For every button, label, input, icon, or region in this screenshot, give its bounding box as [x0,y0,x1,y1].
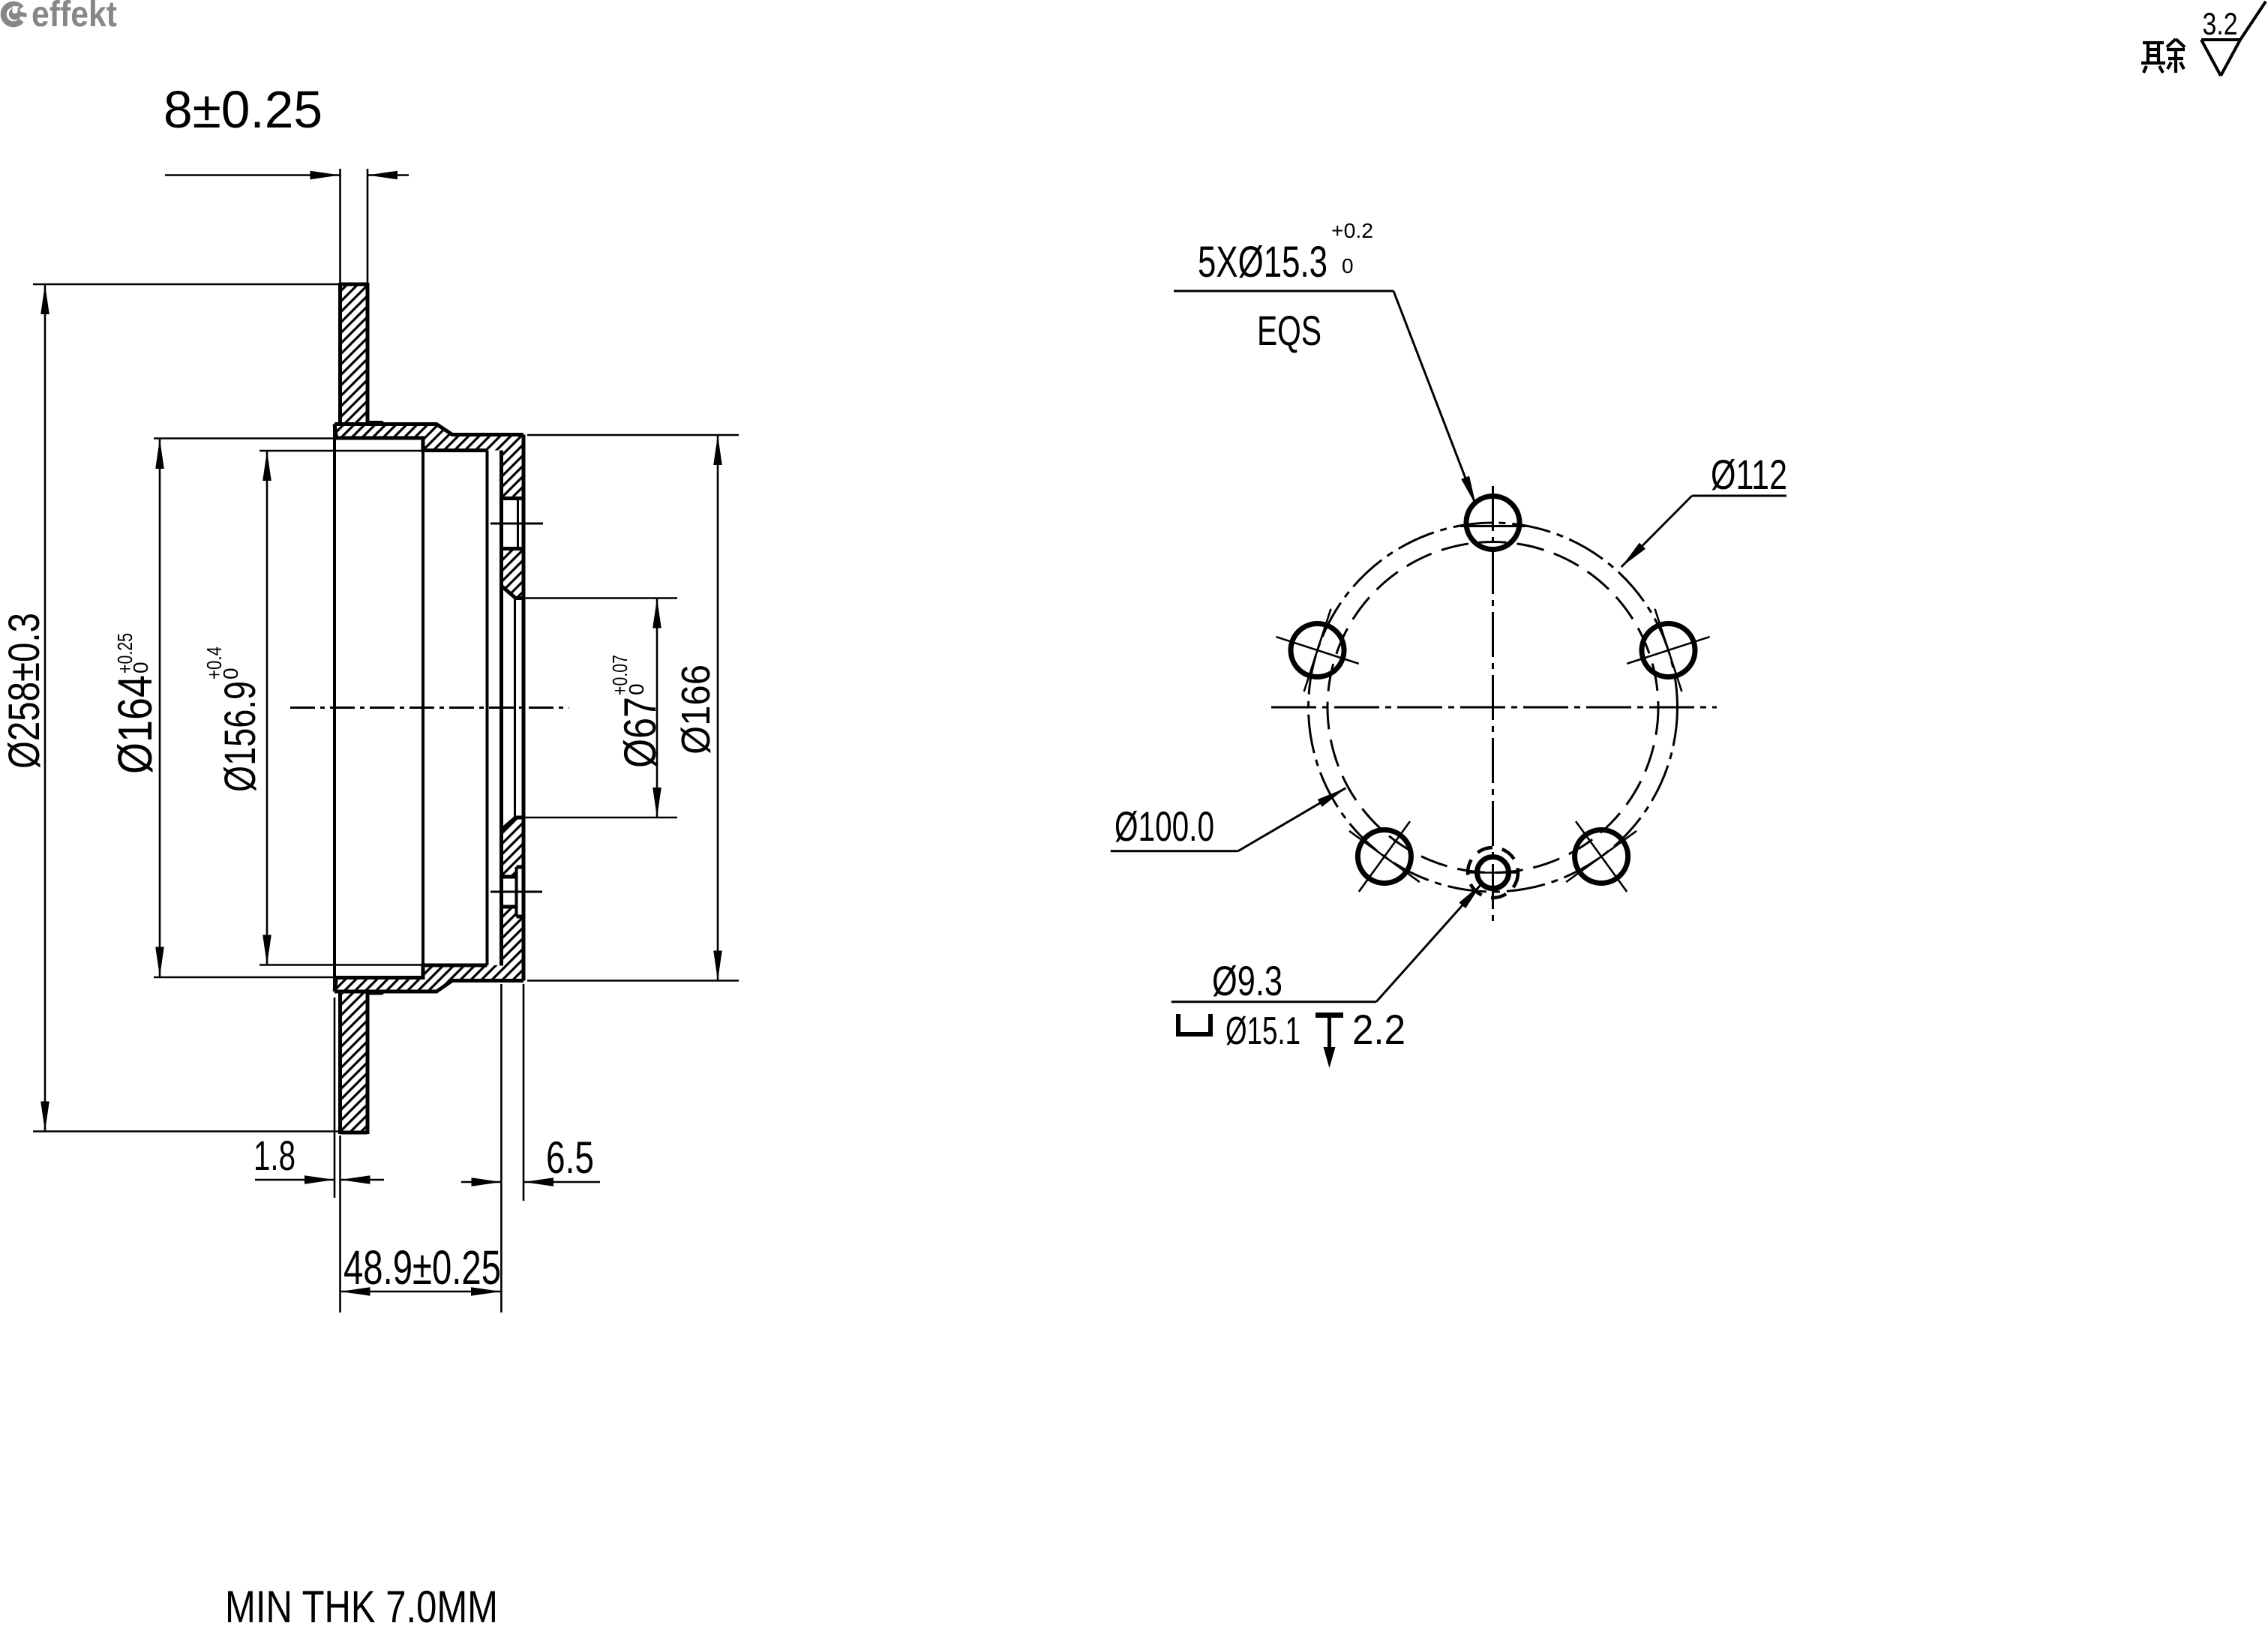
svg-text:Ø9.3: Ø9.3 [1212,957,1282,1004]
svg-text:Ø67: Ø67 [615,697,665,768]
hat outer surface top [334,424,523,435]
counterbore symbol [1178,1014,1210,1034]
svg-text:0: 0 [625,683,648,695]
bolt hole top edges [502,496,524,500]
dimension dia164 [154,437,336,439]
svg-text:Ø15.1: Ø15.1 [1225,1009,1300,1053]
dimension dia67 [523,597,677,599]
dimension dia156.9 [259,450,423,452]
counterbore wall [515,867,518,916]
svg-text:2.2: 2.2 [1352,1006,1405,1053]
small hole tick [1468,871,1519,874]
svg-text:Ø166: Ø166 [673,664,718,754]
counterbore circle dia15.1 [1468,847,1518,898]
svg-text:8±0.25: 8±0.25 [163,80,322,139]
circle dia100 [1327,542,1658,873]
bolt hole far edge [517,499,519,549]
small hole edges [502,875,517,879]
svg-text:effekt: effekt [31,0,117,34]
small hole dia9.3 [1477,857,1509,889]
svg-text:48.9±0.25: 48.9±0.25 [343,1240,501,1294]
dimension dia166 [527,434,739,436]
bore chamfer silhouette [514,598,516,818]
svg-text:Ø156.9: Ø156.9 [216,681,265,792]
svg-text:3.2: 3.2 [2203,6,2238,41]
hatched section: flange strip below bore [502,817,524,877]
dimension 48.9+-0.25 [340,1291,502,1293]
bore top edge and chamfer [516,596,524,600]
right view centerline horizontal [1271,706,1717,709]
svg-text:Ø258±0.3: Ø258±0.3 [0,613,49,769]
bolt hole 4 dia15.3 [1575,830,1628,883]
bolt hole 1 dia15.3 [1466,496,1519,550]
svg-text:0: 0 [1342,254,1354,277]
bore step edge dia156.9 [421,438,424,978]
svg-text:Ø100.0: Ø100.0 [1114,802,1214,850]
bolt hole 5 dia15.3 [1642,624,1695,677]
svg-text:6.5: 6.5 [546,1132,594,1183]
hat inner surface bottom [334,965,487,991]
bolt hole 3 dia15.3 [1357,830,1411,883]
bolt circle dia112 [1309,523,1678,892]
bore bottom edge and chamfer [516,816,524,820]
svg-text:MIN THK 7.0MM: MIN THK 7.0MM [225,1582,498,1626]
svg-text:EQS: EQS [1257,307,1321,354]
hatched section: flange strip above bore [502,549,524,598]
hatched section: hat wall and flange bottom [334,907,523,991]
hatched section: friction ring top [340,284,368,424]
hatched section: friction ring bottom [340,991,368,1132]
drum bottom face edge [486,451,489,966]
surface finish note [2141,1,2266,76]
hat inner surface top (dia164/156.9) [334,424,487,451]
flange right face [522,435,526,981]
dimension 8+-0.25 [339,169,341,283]
hat outer surface bottom [334,981,523,992]
logo effekt [4,0,117,34]
dimension 6.5 [500,984,502,1312]
svg-text:Ø164: Ø164 [108,675,162,774]
friction ring outline [340,283,368,286]
depth symbol [1315,1012,1343,1018]
svg-text:1.8: 1.8 [253,1132,295,1179]
dimension 1.8 [334,997,336,1198]
svg-text:Ø112: Ø112 [1711,451,1787,498]
bolt hole center tick top [490,523,543,525]
hat opening rim edge [333,424,336,992]
small hole center tick bottom [490,891,542,893]
svg-text:0: 0 [219,667,242,679]
right view centerline vertical [1492,486,1494,926]
svg-text:+0.2: +0.2 [1331,219,1373,242]
svg-text:0: 0 [129,661,152,673]
dimension dia258+-0.3 [33,283,340,286]
svg-text:5XØ15.3: 5XØ15.3 [1198,238,1327,286]
hatched section: hat wall and flange top [334,424,523,499]
bolt hole 2 dia15.3 [1291,624,1344,677]
centerline left view [290,706,569,709]
flange left face [499,451,503,966]
